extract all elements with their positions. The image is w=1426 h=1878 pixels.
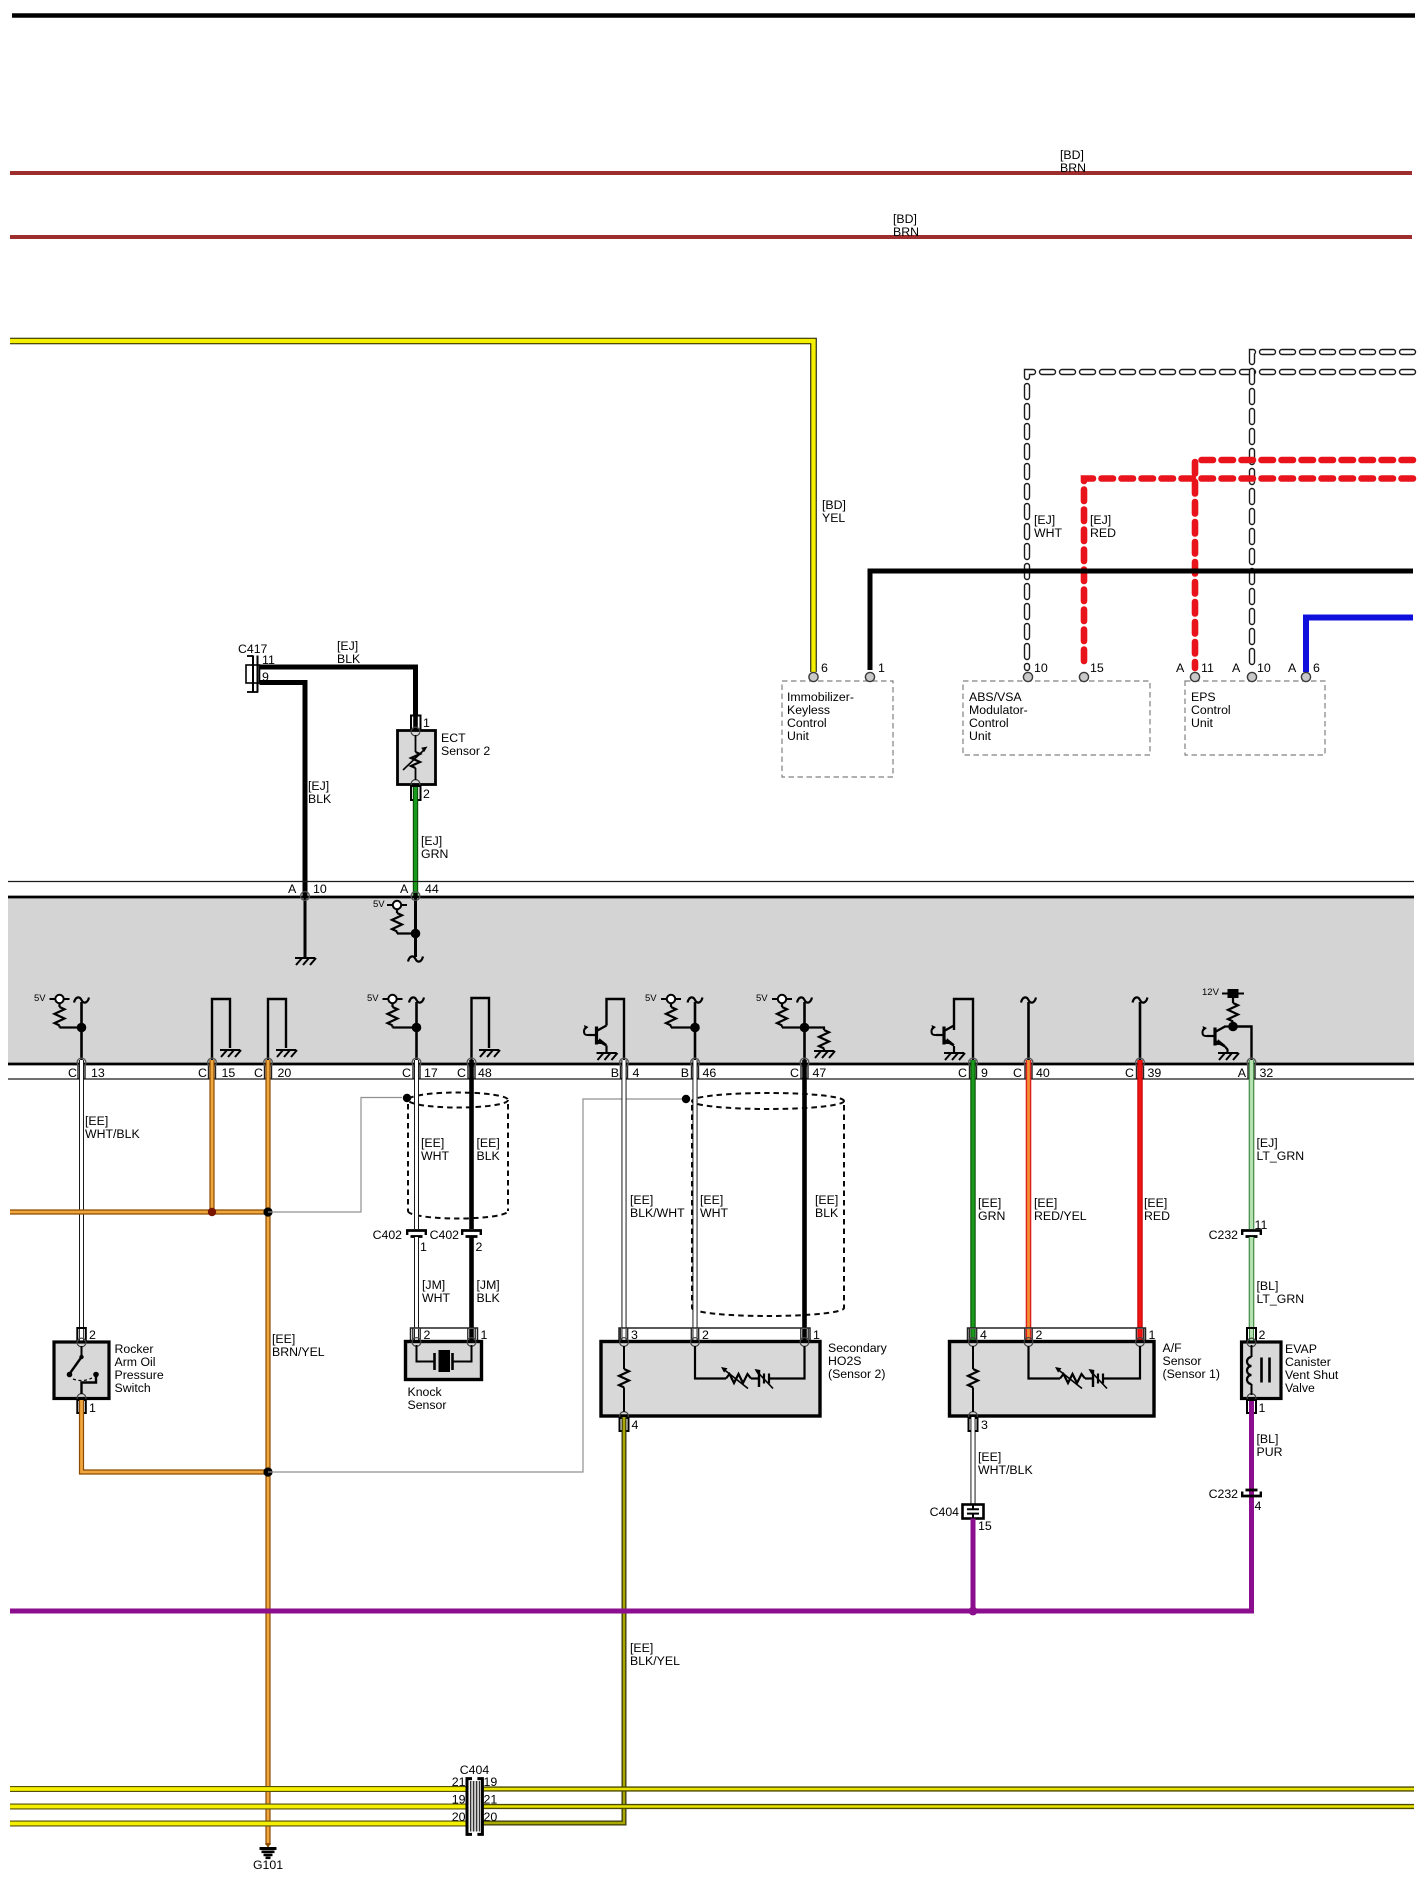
svg-text:[EE]: [EE]: [1034, 1196, 1057, 1210]
knock sensor connector strip: [411, 1328, 478, 1342]
wire [EJ] RED dashed (EPS pin A11): [1195, 460, 1413, 668]
svg-text:[EE]: [EE]: [85, 1114, 108, 1128]
connector C232 (lower): [1241, 1490, 1262, 1496]
svg-text:Control: Control: [787, 716, 827, 730]
B4 internal transistor: [607, 999, 625, 1062]
svg-text:RED/YEL: RED/YEL: [1034, 1209, 1087, 1223]
svg-text:6: 6: [821, 661, 828, 675]
svg-text:[EE]: [EE]: [978, 1196, 1001, 1210]
svg-text:Keyless: Keyless: [787, 703, 830, 717]
rocker switch pin 1: [77, 1400, 86, 1413]
C20 internal ground: [268, 999, 286, 1062]
svg-text:WHT/BLK: WHT/BLK: [85, 1127, 140, 1141]
svg-text:BRN/YEL: BRN/YEL: [272, 1345, 325, 1359]
svg-text:WHT/BLK: WHT/BLK: [978, 1463, 1033, 1477]
wire orange horizontal from page left: [10, 1209, 268, 1214]
svg-text:9: 9: [981, 1066, 988, 1080]
HO2S sense resistor: [623, 1346, 625, 1369]
svg-text:15: 15: [978, 1519, 992, 1533]
wire [EJ] WHT dashed (EPS pin A10): [1252, 352, 1413, 668]
wire [EE] BLK/YEL HO2S 4 to C404 20: [482, 1417, 624, 1823]
svg-text:[BL]: [BL]: [1257, 1432, 1279, 1446]
wire [EE] BLK C47 to HO2S 1: [802, 1060, 807, 1330]
svg-text:1: 1: [1259, 1401, 1266, 1415]
svg-text:20: 20: [484, 1810, 498, 1824]
svg-text:(Sensor 1): (Sensor 1): [1163, 1367, 1220, 1381]
svg-text:12V: 12V: [1202, 987, 1220, 998]
wire [BD] YEL: [10, 341, 814, 672]
svg-text:2: 2: [423, 787, 430, 801]
svg-text:[JM]: [JM]: [422, 1278, 445, 1292]
svg-text:21: 21: [484, 1793, 498, 1807]
svg-text:ECT: ECT: [441, 731, 466, 745]
wire [EE] RED C39 to A/F 1: [1137, 1060, 1142, 1330]
wire BLK to immobilizer pin 1: [870, 571, 1413, 670]
svg-text:C232: C232: [1209, 1487, 1239, 1501]
A/F heater: [1029, 1346, 1061, 1379]
HO2S connector strip: [619, 1328, 810, 1342]
svg-text:3: 3: [981, 1418, 988, 1432]
svg-text:11: 11: [1201, 661, 1214, 675]
wire [EJ] WHT dashed (ABS/VSA pin 10): [1027, 372, 1413, 668]
connector C402 (right): [461, 1231, 482, 1237]
svg-text:15: 15: [222, 1066, 236, 1080]
yellow bus row 19 (left): [10, 1786, 467, 1792]
wire [EE] BRN/YEL orange C20 down: [265, 1060, 270, 1845]
svg-text:Secondary: Secondary: [828, 1341, 888, 1355]
svg-text:20: 20: [278, 1066, 292, 1080]
wire stubs through A/F strip: [973, 1329, 1140, 1342]
svg-text:A: A: [400, 882, 409, 896]
svg-text:5V: 5V: [645, 993, 657, 1004]
wire [EJ] RED dashed (ABS/VSA pin 15): [1084, 479, 1413, 669]
svg-text:[JM]: [JM]: [477, 1278, 500, 1292]
svg-text:19: 19: [484, 1775, 498, 1789]
svg-text:[EJ]: [EJ]: [308, 779, 329, 793]
svg-text:B: B: [611, 1066, 619, 1080]
svg-text:EVAP: EVAP: [1285, 1342, 1317, 1356]
wire BLU to EPS pin A6: [1306, 618, 1413, 673]
svg-text:[BD]: [BD]: [893, 212, 917, 226]
wire [EE] WHT/BLK C13 to rocker switch: [79, 1060, 84, 1328]
svg-text:[EE]: [EE]: [477, 1136, 500, 1150]
svg-text:A: A: [1238, 1066, 1247, 1080]
svg-text:[BL]: [BL]: [1257, 1279, 1279, 1293]
wire [EE] WHT C17 to C402: [414, 1060, 419, 1229]
svg-text:LT_GRN: LT_GRN: [1257, 1149, 1305, 1163]
svg-text:[EE]: [EE]: [815, 1193, 838, 1207]
wire [EE] GRN C9 to A/F 4: [970, 1060, 975, 1330]
svg-text:C402: C402: [430, 1228, 460, 1242]
C39 internal wire: [1139, 1002, 1142, 1062]
C9 internal transistor: [954, 999, 973, 1062]
svg-text:A/F: A/F: [1163, 1341, 1183, 1355]
connector C417: [246, 656, 260, 693]
ECT Sensor 2 pin 1: [411, 716, 421, 731]
junction C20/orange: [263, 1207, 272, 1216]
shield junction dot (knock): [403, 1094, 411, 1102]
svg-text:2: 2: [89, 1328, 96, 1342]
svg-text:BLK: BLK: [477, 1291, 501, 1305]
svg-text:Valve: Valve: [1285, 1381, 1315, 1395]
svg-text:G101: G101: [253, 1858, 283, 1872]
ground G101: [265, 1843, 271, 1848]
svg-text:5V: 5V: [34, 993, 46, 1004]
svg-text:C: C: [254, 1066, 263, 1080]
ECM bottom pin circles: [77, 1058, 1256, 1067]
svg-text:[EJ]: [EJ]: [421, 834, 442, 848]
svg-text:[EE]: [EE]: [630, 1193, 653, 1207]
svg-text:Pressure: Pressure: [115, 1368, 164, 1382]
svg-text:1: 1: [878, 661, 885, 675]
rocker switch pin 2: [77, 1328, 86, 1342]
svg-text:2: 2: [476, 1240, 483, 1254]
svg-text:1: 1: [420, 1240, 427, 1254]
wire [EJ] BLK C417-11 to ECT: [260, 667, 416, 715]
svg-text:BLK/YEL: BLK/YEL: [630, 1654, 680, 1668]
svg-text:WHT: WHT: [1034, 526, 1062, 540]
wire PUR C404 to purple bus: [971, 1519, 976, 1612]
svg-text:Arm Oil: Arm Oil: [115, 1355, 156, 1369]
wire [BD] BRN 1: [10, 171, 1412, 175]
svg-text:C: C: [790, 1066, 799, 1080]
wire orange C15: [209, 1060, 214, 1212]
wire [BD] BRN 2: [10, 235, 1412, 239]
wire orange rocker 1 to junction: [82, 1400, 269, 1472]
wire [BL] PUR EVAP to purple bus: [10, 1401, 1252, 1611]
svg-text:2: 2: [1259, 1328, 1266, 1342]
svg-text:[EE]: [EE]: [700, 1193, 723, 1207]
EVAP pin 2: [1247, 1328, 1256, 1342]
svg-text:RED: RED: [1090, 526, 1116, 540]
wire [JM] BLK C402 to knock 1: [469, 1237, 474, 1330]
svg-text:A: A: [288, 882, 297, 896]
A/F pin 3: [969, 1418, 978, 1431]
svg-text:Control: Control: [969, 716, 1009, 730]
svg-text:BLK/WHT: BLK/WHT: [630, 1206, 685, 1220]
connector C402 (left): [406, 1231, 427, 1237]
wire [EE] WHT B46 to HO2S 2: [693, 1060, 698, 1330]
wire stubs through knock strip: [414, 1329, 419, 1342]
svg-text:Sensor 2: Sensor 2: [441, 744, 490, 758]
svg-text:20: 20: [452, 1810, 466, 1824]
svg-text:RED: RED: [1144, 1209, 1170, 1223]
svg-text:[BD]: [BD]: [1060, 148, 1084, 162]
EVAP Canister Vent Shut Valve body: [1242, 1342, 1282, 1399]
svg-text:C: C: [1013, 1066, 1022, 1080]
svg-text:[EE]: [EE]: [272, 1332, 295, 1346]
Rocker Arm Oil Pressure Switch body: [54, 1342, 109, 1399]
svg-text:48: 48: [478, 1066, 492, 1080]
page top border: [12, 13, 1415, 18]
yellow bus row 21 (left): [10, 1804, 467, 1810]
junction C15/orange: [208, 1208, 216, 1216]
svg-text:4: 4: [1255, 1499, 1262, 1513]
svg-text:11: 11: [262, 653, 275, 667]
svg-text:BLK: BLK: [308, 792, 332, 806]
svg-text:40: 40: [1036, 1066, 1050, 1080]
svg-text:LT_GRN: LT_GRN: [1257, 1292, 1305, 1306]
svg-text:A: A: [1176, 661, 1185, 675]
svg-text:5V: 5V: [367, 993, 379, 1004]
C48 internal ground: [472, 998, 490, 1062]
svg-text:C: C: [68, 1066, 77, 1080]
svg-text:C: C: [958, 1066, 967, 1080]
C40 internal wire: [1027, 1002, 1030, 1062]
ECM bottom pin slots: [78, 1066, 1255, 1079]
wire [BL] LT_GRN C232 to EVAP 2: [1249, 1237, 1255, 1330]
shield junction dot (HO2S): [682, 1095, 690, 1103]
A/F connector strip: [968, 1328, 1146, 1342]
A/F sense resistor: [972, 1346, 974, 1369]
ABS/VSA Modulator-Control Unit box: [963, 681, 1150, 755]
svg-text:[BD]: [BD]: [822, 498, 846, 512]
svg-text:[EJ]: [EJ]: [337, 639, 358, 653]
Secondary HO2S body: [601, 1342, 820, 1417]
svg-text:C404: C404: [930, 1505, 960, 1519]
svg-text:Rocker: Rocker: [115, 1342, 154, 1356]
svg-text:47: 47: [813, 1066, 827, 1080]
svg-text:BRN: BRN: [893, 225, 919, 239]
wire [EJ] BLK C417-9 to ECM A10: [260, 683, 306, 898]
svg-text:44: 44: [425, 882, 439, 896]
yellow bus row 19 (right): [482, 1786, 1414, 1791]
A10 internal ground: [304, 897, 307, 957]
ECT Sensor 2 body: [398, 731, 436, 785]
svg-text:ABS/VSA: ABS/VSA: [969, 690, 1022, 704]
svg-text:1: 1: [89, 1401, 96, 1415]
svg-text:WHT: WHT: [700, 1206, 728, 1220]
wire [EJ] LT_GRN A32 to C232: [1249, 1060, 1255, 1229]
svg-text:Unit: Unit: [969, 729, 991, 743]
EPS Control Unit box: [1185, 681, 1325, 755]
A/F Sensor body: [950, 1342, 1155, 1417]
switch contacts: [81, 1346, 83, 1356]
svg-text:1: 1: [423, 716, 430, 730]
svg-text:32: 32: [1260, 1066, 1274, 1080]
svg-text:4: 4: [632, 1418, 639, 1432]
svg-text:10: 10: [313, 882, 327, 896]
HO2S heater: [695, 1346, 726, 1379]
svg-text:EPS: EPS: [1191, 690, 1216, 704]
HO2S pin 4: [620, 1418, 629, 1431]
wire [EE] BLK C48 to C402: [469, 1060, 474, 1229]
svg-text:YEL: YEL: [822, 511, 845, 525]
svg-text:C: C: [457, 1066, 466, 1080]
svg-text:46: 46: [703, 1066, 717, 1080]
svg-text:GRN: GRN: [978, 1209, 1005, 1223]
svg-text:13: 13: [91, 1066, 105, 1080]
svg-text:(Sensor 2): (Sensor 2): [828, 1367, 885, 1381]
svg-text:Sensor: Sensor: [408, 1398, 447, 1412]
EVAP pin 1: [1247, 1400, 1256, 1413]
svg-text:B: B: [681, 1066, 689, 1080]
ECM/PCM band: [8, 881, 1414, 883]
svg-text:A: A: [1232, 661, 1241, 675]
svg-text:19: 19: [452, 1793, 466, 1807]
svg-text:C232: C232: [1209, 1228, 1239, 1242]
svg-text:Unit: Unit: [787, 729, 809, 743]
svg-text:C: C: [402, 1066, 411, 1080]
svg-text:4: 4: [633, 1066, 640, 1080]
wire [EJ] GRN ECT-2 to ECM A44: [413, 787, 418, 897]
unit pin circles: [809, 672, 1311, 681]
ECT Sensor 2 pin 2: [411, 786, 421, 800]
svg-text:Switch: Switch: [115, 1381, 151, 1395]
svg-text:17: 17: [424, 1066, 438, 1080]
svg-text:[EJ]: [EJ]: [1257, 1136, 1278, 1150]
svg-text:HO2S: HO2S: [828, 1354, 862, 1368]
svg-text:[EJ]: [EJ]: [1090, 513, 1111, 527]
wire [EE] BLK/WHT B4 to HO2S 3: [622, 1060, 627, 1330]
connector C404 (A/F): [963, 1505, 984, 1519]
svg-text:6: 6: [1313, 661, 1320, 675]
EVAP solenoid coil: [1251, 1345, 1253, 1357]
wire [EE] WHT/BLK A/F 3 to C404 15: [971, 1417, 976, 1504]
yellow bus row 20 (left): [10, 1821, 467, 1827]
svg-text:[EJ]: [EJ]: [1034, 513, 1055, 527]
svg-text:GRN: GRN: [421, 847, 448, 861]
wire stubs through HO2S strip: [622, 1329, 627, 1342]
C15 internal ground: [212, 999, 230, 1062]
svg-text:10: 10: [1257, 661, 1271, 675]
svg-text:9: 9: [262, 670, 269, 684]
svg-text:PUR: PUR: [1257, 1445, 1283, 1459]
wire [JM] WHT C402 to knock 2: [414, 1237, 419, 1330]
ECM bottom pin labels: [68, 1066, 1273, 1080]
svg-text:Modulator-: Modulator-: [969, 703, 1028, 717]
svg-text:C: C: [198, 1066, 207, 1080]
svg-text:21: 21: [452, 1775, 466, 1789]
svg-text:5V: 5V: [373, 899, 385, 910]
svg-text:10: 10: [1034, 661, 1048, 675]
svg-text:Knock: Knock: [408, 1385, 443, 1399]
svg-text:[EE]: [EE]: [630, 1641, 653, 1655]
svg-text:Immobilizer-: Immobilizer-: [787, 690, 854, 704]
A44 internal 5V pull-up: [414, 893, 417, 957]
svg-text:Control: Control: [1191, 703, 1231, 717]
svg-text:[EE]: [EE]: [421, 1136, 444, 1150]
shield drain wire to knock sensor shield: [268, 1098, 402, 1213]
knock sensor shield (dashed cylinder): [408, 1093, 508, 1219]
HO2S shield (dashed cylinder): [692, 1093, 844, 1316]
svg-text:BRN: BRN: [1060, 161, 1086, 175]
svg-text:15: 15: [1090, 661, 1104, 675]
ECT thermistor: [415, 735, 417, 752]
junction orange at 268,1472: [263, 1467, 272, 1476]
svg-text:39: 39: [1148, 1066, 1162, 1080]
svg-text:C402: C402: [373, 1228, 403, 1242]
svg-text:WHT: WHT: [422, 1291, 450, 1305]
svg-text:[EE]: [EE]: [1144, 1196, 1167, 1210]
svg-text:BLK: BLK: [477, 1149, 501, 1163]
svg-text:BLK: BLK: [337, 652, 361, 666]
svg-text:Sensor: Sensor: [1163, 1354, 1202, 1368]
svg-text:5V: 5V: [756, 993, 768, 1004]
yellow bus row 21 (right): [482, 1804, 1414, 1809]
svg-text:11: 11: [1255, 1218, 1268, 1232]
knock sensor body: [406, 1342, 482, 1380]
shield drain wire to HO2S shield: [268, 1099, 682, 1472]
svg-text:Canister: Canister: [1285, 1355, 1331, 1369]
svg-text:A: A: [1288, 661, 1297, 675]
wire [EE] RED/YEL C40 to A/F 2: [1026, 1060, 1032, 1330]
svg-text:[EE]: [EE]: [978, 1450, 1001, 1464]
svg-text:BLK: BLK: [815, 1206, 839, 1220]
svg-text:Vent Shut: Vent Shut: [1285, 1368, 1339, 1382]
connector C232 (upper): [1241, 1231, 1262, 1237]
svg-text:WHT: WHT: [421, 1149, 449, 1163]
Immobilizer-Keyless Control Unit box: [782, 681, 893, 777]
svg-text:C: C: [1125, 1066, 1134, 1080]
knock piezo element: [417, 1345, 434, 1362]
svg-text:Unit: Unit: [1191, 716, 1213, 730]
